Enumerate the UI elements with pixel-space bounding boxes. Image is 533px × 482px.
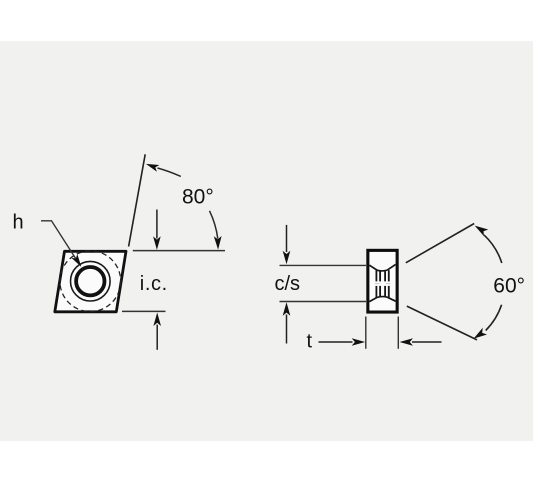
arrowhead h leader: [71, 254, 81, 267]
svg-text:80°: 80°: [182, 186, 214, 209]
60 arc lower: [486, 305, 502, 331]
svg-text:t: t: [307, 330, 313, 352]
arrowhead 80 arc right: [214, 236, 222, 250]
60 arc upper: [484, 235, 502, 263]
countersink bottom dome: [377, 296, 388, 299]
svg-text:60°: 60°: [493, 274, 525, 297]
t left arrow: [319, 341, 353, 343]
inscribed circle (dashed): [60, 251, 121, 312]
svg-text:i.c.: i.c.: [140, 273, 168, 295]
i.c. up arrow: [156, 325, 158, 350]
extension line right: [397, 317, 399, 349]
hole outer circle: [71, 261, 111, 301]
bore vertical lines lower: [375, 286, 377, 298]
svg-text:h: h: [13, 212, 24, 234]
countersink top-left slope: [369, 265, 377, 270]
countersink top sag curve: [377, 269, 388, 272]
arrowhead 60 arc lower: [474, 328, 487, 339]
60-deg bottom line: [407, 306, 477, 340]
t right arrow: [412, 341, 442, 343]
arrowhead 80 arc left: [146, 164, 159, 172]
countersink bottom-left slope: [369, 298, 376, 302]
insert side view body: [368, 250, 397, 312]
80-deg arc right segment: [210, 211, 218, 239]
arrowhead 60 arc upper: [475, 226, 489, 237]
countersink bottom-right slope: [387, 297, 395, 301]
c/s up arrow: [286, 315, 288, 344]
80-deg extension line: [129, 154, 146, 246]
c/s top line: [280, 264, 367, 266]
i.c. top dimension line: [133, 250, 225, 252]
svg-text:c/s: c/s: [275, 273, 301, 295]
extension line left: [365, 317, 367, 349]
faint mid wisps: [375, 283, 380, 285]
countersink top-right slope: [388, 264, 396, 270]
i.c. down arrow: [156, 210, 158, 239]
c/s down arrow: [286, 225, 288, 252]
i.c. bottom dimension line: [122, 310, 166, 312]
bore vertical lines upper: [375, 270, 377, 281]
insert top view: 80-deg diamond body: [55, 251, 126, 311]
80-deg arc left segment: [158, 168, 181, 176]
hole ring: [76, 267, 104, 295]
leader h: [41, 221, 77, 260]
60-deg top line: [406, 224, 474, 263]
c/s bottom line: [280, 301, 367, 303]
